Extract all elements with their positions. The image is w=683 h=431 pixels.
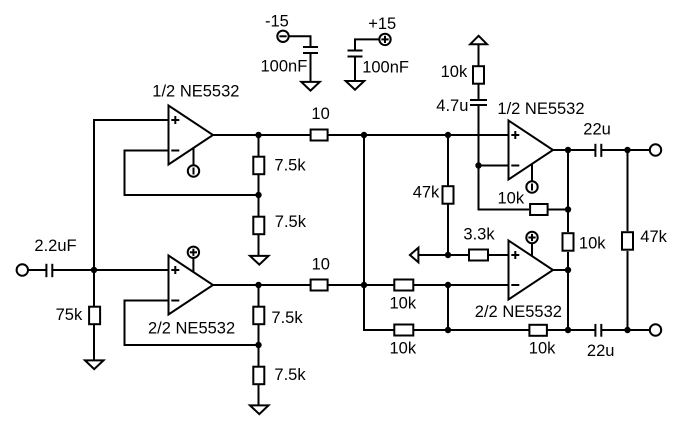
capacitor 22u (bottom output) (595, 324, 601, 337)
op-amp U2A (1/2 NE5532) (509, 121, 554, 180)
wire U1A - input feedback (125, 151, 259, 196)
svg-text:1/2 NE5532: 1/2 NE5532 (152, 82, 239, 100)
svg-text:100nF: 100nF (362, 59, 409, 77)
svg-text:-15: -15 (265, 12, 289, 30)
U2A V- pin circle (526, 181, 537, 192)
output terminal (bottom) (650, 324, 661, 335)
resistor 10k (U2A feedback) (530, 204, 548, 215)
wire between 7.5k resistors ch2 (258, 325, 260, 367)
capacitor 100nF (V+ rail) (348, 51, 363, 57)
node 7.5k divider ch1 (255, 192, 261, 198)
svg-text:+15: +15 (368, 15, 396, 33)
wire U1B output down to 7.5k (258, 285, 260, 307)
node 7.5k divider ch2 (255, 342, 261, 348)
resistor 7.5k (upper, ch1) (253, 157, 264, 175)
node bottom bus / vertical B (445, 327, 451, 333)
svg-text:2/2 NE5532: 2/2 NE5532 (475, 303, 562, 321)
capacitor 2.2uF (46, 264, 52, 277)
node U1B output (255, 282, 261, 288)
node U2A - input (475, 162, 481, 168)
wire 22u to output terminal (bottom) (601, 329, 650, 331)
svg-text:100nF: 100nF (261, 58, 308, 76)
wire 47k vertical top segment (627, 150, 629, 231)
supply terminal -15 (277, 31, 288, 42)
svg-text:10: 10 (312, 255, 330, 273)
wire U2B output (553, 269, 568, 271)
resistor 7.5k (lower, ch1) (253, 217, 264, 235)
wire +15 to 100nF cap (355, 39, 379, 50)
wire bottom bus to 22u (548, 329, 596, 331)
ground (V+ filter) (346, 81, 365, 90)
svg-text:10: 10 (311, 105, 329, 123)
arrow connector (left) (410, 248, 419, 263)
op-amp U2B (2/2 NE5532) (509, 241, 554, 300)
resistor 75k (89, 307, 100, 325)
svg-text:2/2 NE5532: 2/2 NE5532 (148, 319, 235, 337)
capacitor 100nF (V- rail) (303, 47, 318, 53)
svg-text:7.5k: 7.5k (271, 309, 303, 327)
svg-text:47k: 47k (640, 228, 667, 246)
svg-text:22u: 22u (587, 342, 615, 360)
supply arrow (V+) above 10k (470, 36, 487, 44)
wire 10k vertical to U2B output (567, 252, 569, 330)
wire 7.5k to ground ch2 (258, 385, 260, 406)
svg-text:7.5k: 7.5k (274, 157, 306, 175)
resistor 10k (bottom bus left) (394, 325, 413, 336)
svg-text:10k: 10k (498, 189, 525, 207)
vertical wire A (top bus to bottom bus) (364, 135, 394, 330)
wire 22u to output terminal (top) (601, 149, 650, 151)
node bottom bus / vertical C (565, 327, 571, 333)
wire input node up to U1A + input (94, 120, 169, 270)
op-amp U1A (1/2 NE5532) (169, 106, 214, 165)
resistor 10k (bottom bus fb) (529, 325, 547, 336)
wire node to U2A - input (479, 165, 509, 167)
wire 10k feedback to node (548, 209, 569, 211)
vertical wire B (mid to bottom bus) (447, 285, 449, 330)
node mid bus / vertical B (445, 282, 451, 288)
svg-text:7.5k: 7.5k (274, 366, 306, 384)
U1A V- pin circle (188, 165, 199, 176)
svg-text:2.2uF: 2.2uF (34, 237, 76, 255)
wire input node down to 75k (93, 270, 95, 306)
wire 47k vertical bottom segment (627, 251, 629, 330)
ground (V- filter) (301, 82, 320, 91)
wire 100nF to ground (V+) (354, 57, 356, 81)
wire arrow to 10k (478, 44, 480, 66)
svg-text:3.3k: 3.3k (463, 225, 495, 243)
node input junction (91, 267, 97, 273)
capacitor 4.7u (470, 100, 487, 105)
supply terminal +15 (379, 34, 390, 45)
wire between 7.5k resistors ch1 (258, 175, 260, 217)
svg-text:22u: 22u (583, 120, 611, 138)
resistor 47k (right) (622, 232, 633, 250)
U1A V- pin stub (193, 148, 195, 165)
wire fb node to 10k vertical (567, 210, 569, 233)
ground (divider ch1) (250, 256, 269, 265)
wire 47k top to node (447, 135, 449, 186)
wire top bus to U2A + input (329, 134, 509, 136)
svg-text:1/2 NE5532: 1/2 NE5532 (497, 100, 584, 118)
resistor 7.5k (upper, ch2) (253, 307, 264, 325)
capacitor 22u (top output) (595, 144, 601, 157)
node 47k tap (bottom) (624, 327, 630, 333)
svg-text:10k: 10k (390, 339, 417, 357)
ground (divider ch2) (250, 405, 269, 414)
resistor 3.3k (469, 250, 488, 261)
output terminal (top) (650, 144, 661, 155)
svg-text:75k: 75k (56, 306, 83, 324)
wire 100nF to ground (310, 53, 312, 82)
wire U1B output (213, 284, 310, 286)
wire U2A feedback down and right (479, 166, 530, 210)
resistor 10k (to V+) (473, 66, 484, 84)
wire 7.5k to ground ch1 (258, 235, 260, 256)
node top bus / 47k (445, 132, 451, 138)
svg-text:10k: 10k (390, 294, 417, 312)
wire 10k to U2B - input (414, 284, 509, 286)
input terminal (17, 264, 28, 275)
svg-text:4.7u: 4.7u (436, 97, 468, 115)
wire 10k to 4.7u (478, 85, 480, 101)
node U2A output (565, 147, 571, 153)
wire U1A output down to 7.5k (258, 135, 260, 157)
wire 3.3k to U2B + input (489, 254, 509, 256)
U2A V- pin stub (531, 164, 533, 181)
wire U1B - input feedback (125, 301, 259, 346)
svg-text:10k: 10k (529, 339, 556, 357)
resistor 10 (mid bus) (311, 280, 328, 291)
resistor 10k (vertical, U2B fb) (563, 233, 574, 251)
svg-text:10k: 10k (441, 63, 468, 81)
wire 75k to ground (93, 325, 95, 360)
wire 47k to arrow wire (447, 204, 449, 255)
resistor 10k (mid bus) (394, 280, 413, 291)
node U1A output (255, 132, 261, 138)
wire input to 2.2uF (28, 269, 46, 271)
svg-text:47k: 47k (413, 183, 440, 201)
resistor 10 (top bus) (311, 130, 328, 141)
vertical wire C (U2A out to fb node) (567, 150, 569, 210)
U2B V+ pin circle (526, 232, 537, 243)
wire mid bus left segment (329, 284, 394, 286)
node feedback / vertical C (565, 206, 571, 212)
resistor 47k (left) (443, 186, 454, 204)
wire U1A output (213, 134, 310, 136)
wire U2A output (553, 149, 595, 151)
node arrow wire / 47k (445, 252, 451, 258)
node 47k tap (top) (624, 147, 630, 153)
node U2B output (565, 267, 571, 273)
U1B V+ pin stub (192, 258, 194, 272)
node mid bus / vertical A (361, 282, 367, 288)
wire bottom bus (414, 329, 529, 331)
svg-text:10k: 10k (579, 234, 606, 252)
ground (75k) (85, 360, 104, 369)
wire arrow to 3.3k (418, 254, 469, 256)
wire 2.2uF to op-amp U1B + input (52, 269, 168, 271)
U1B V+ pin circle (188, 247, 199, 258)
op-amp U1B (2/2 NE5532) (169, 256, 214, 315)
U2B V+ pin stub (531, 243, 533, 256)
node top bus / vertical A (361, 132, 367, 138)
wire -15 to 100nF cap (289, 36, 311, 47)
wire 4.7u down across bus to U2A - node (478, 105, 480, 166)
resistor 7.5k (lower, ch2) (253, 367, 264, 385)
svg-text:7.5k: 7.5k (275, 213, 307, 231)
